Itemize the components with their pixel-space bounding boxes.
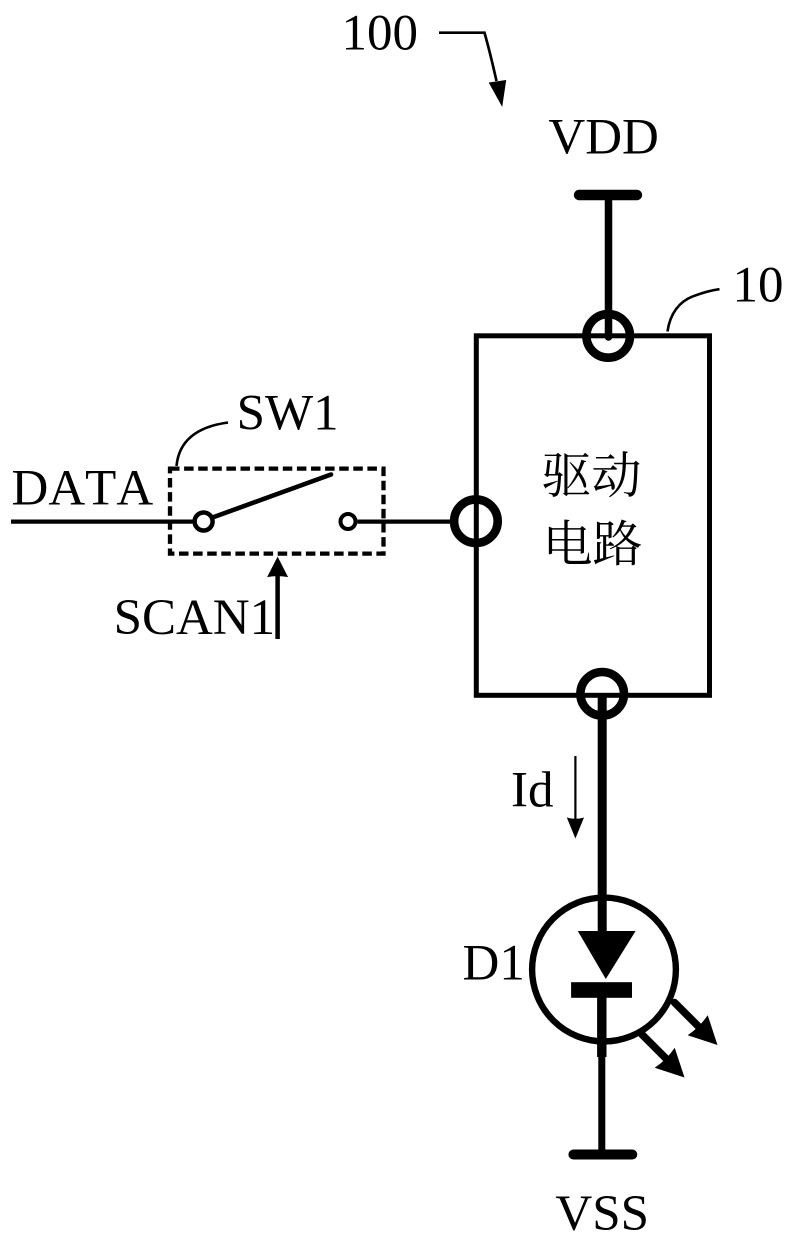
wire DATA input xyxy=(11,519,193,523)
block 10 text 驱动电路 (driver circuit) xyxy=(543,451,641,565)
switch SW1 right contact xyxy=(341,514,356,529)
terminal node (bottom of driver block) xyxy=(580,672,624,716)
wire LED cathode to VSS xyxy=(597,996,606,1155)
wire driver block to LED anode xyxy=(598,694,607,935)
LED D1 cathode bar xyxy=(571,982,632,998)
control arrow SCAN1 xyxy=(267,557,288,639)
terminal node (left of driver block) xyxy=(454,499,498,543)
svg-text:DATA: DATA xyxy=(12,461,154,517)
power supply symbol VSS (bar) xyxy=(573,1150,632,1160)
wire switch to driver block xyxy=(358,519,451,523)
LED D1 circle xyxy=(532,898,676,1042)
power supply symbol VDD (bar) xyxy=(579,190,637,200)
leader line from label 10 xyxy=(668,289,720,331)
wire VDD to top terminal xyxy=(605,197,613,337)
switch SW1 blade xyxy=(213,475,332,518)
switch SW1 left contact xyxy=(195,513,213,531)
LED D1 anode triangle xyxy=(578,931,636,979)
LED light emission arrow 2 xyxy=(642,1035,685,1078)
leader line from label SW1 xyxy=(177,423,229,467)
current direction arrow Id xyxy=(567,756,584,839)
leader arrow from label 100 xyxy=(439,33,506,107)
svg-text:Id: Id xyxy=(511,763,553,819)
svg-text:VDD: VDD xyxy=(548,110,659,166)
switch SW1 dashed outline xyxy=(170,469,384,554)
LED light emission arrow 1 xyxy=(675,1003,718,1046)
terminal node (top of driver block) xyxy=(586,314,630,358)
svg-text:100: 100 xyxy=(342,6,419,62)
svg-text:D1: D1 xyxy=(463,936,525,992)
svg-text:SCAN1: SCAN1 xyxy=(114,590,276,646)
svg-text:10: 10 xyxy=(733,258,784,314)
driver circuit block 10 (rectangle) xyxy=(476,336,709,696)
svg-text:VSS: VSS xyxy=(555,1186,649,1242)
svg-text:SW1: SW1 xyxy=(237,386,339,442)
